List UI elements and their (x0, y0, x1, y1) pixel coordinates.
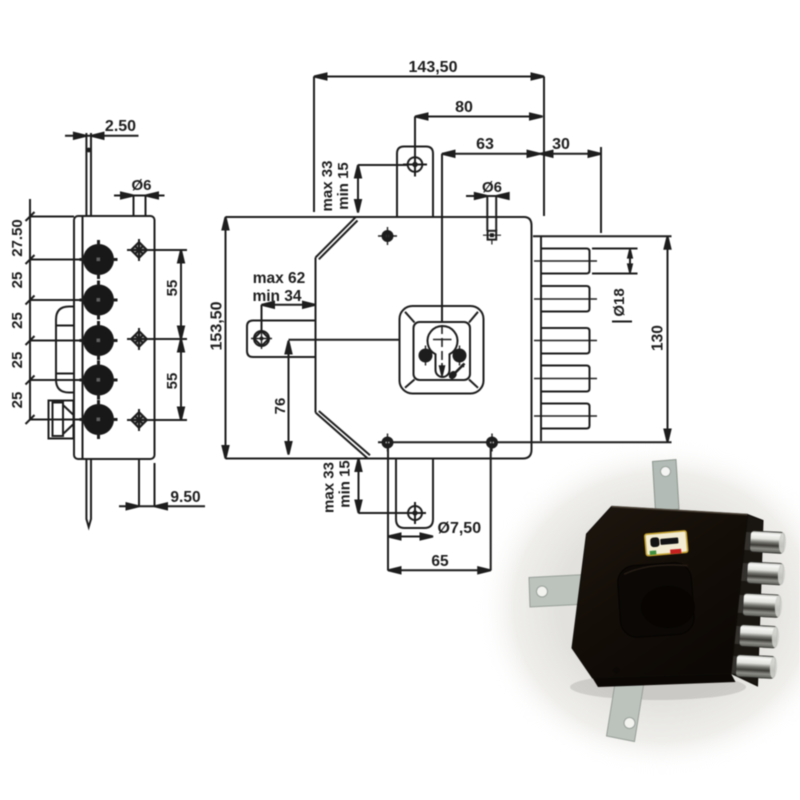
dimension 130 (667, 236, 669, 442)
cylinder escutcheon inner (414, 322, 471, 380)
photo lock side face (731, 515, 763, 687)
photo bottom mounting strap (607, 674, 645, 742)
front top screw hole (378, 227, 397, 245)
front view top-left chamfer (316, 217, 357, 258)
photo left strap hole (537, 586, 548, 597)
svg-text:30: 30 (552, 136, 570, 153)
photo bolt pin 3 (733, 593, 782, 618)
front view top mounting tab (397, 147, 433, 218)
svg-text:9.50: 9.50 (170, 489, 200, 506)
photo central recess (617, 562, 696, 639)
bottom tab hole (404, 502, 426, 524)
photo bottom strap hole (624, 718, 635, 729)
bolt 1 centerline (534, 260, 597, 262)
front view bottom-left chamfer (316, 413, 369, 459)
photo left mounting strap (529, 575, 587, 608)
svg-text:27.50: 27.50 (9, 219, 26, 257)
svg-text:63: 63 (476, 136, 494, 153)
left dimension tick marks (26, 212, 35, 424)
dimension 76 (288, 341, 290, 455)
svg-text:55: 55 (164, 280, 181, 297)
svg-text:25: 25 (9, 312, 26, 329)
svg-text:Ø6: Ø6 (131, 177, 151, 194)
photo top mounting strap (653, 460, 680, 512)
bolt 4 (541, 366, 590, 392)
front left strap (247, 321, 316, 358)
side view faceplate rod bottom (86, 459, 91, 527)
front view left edge (315, 258, 317, 413)
small key glyph (449, 364, 465, 380)
side view lower square tab (49, 401, 74, 439)
cylinder screw left (420, 346, 432, 366)
photo body top edge highlight (612, 507, 748, 515)
photo recess dark hollow (641, 586, 695, 628)
cylinder centerline (441, 154, 443, 321)
svg-text:max 33: max 33 (319, 161, 336, 212)
photo bolt pin 1 (740, 530, 786, 553)
dimension 63 and 30 (442, 153, 601, 155)
front bottom screw hole left (383, 434, 393, 452)
svg-text:80: 80 (455, 99, 473, 116)
dimension 55 upper (149, 249, 187, 251)
left dimension chain line (29, 199, 31, 420)
side view knob 3 (80, 321, 118, 360)
side view knob 1 (80, 240, 118, 279)
escutcheon corner bevels (405, 312, 415, 323)
front view body outline (226, 217, 532, 459)
dimension diameter 6 front (466, 195, 509, 197)
left dimension extension lines (30, 216, 74, 218)
side view knob 2 (80, 281, 118, 320)
side view fixing hole diamond 1 (127, 239, 151, 261)
dimension 80 (415, 116, 543, 118)
side view knob 5 (80, 400, 118, 439)
svg-text:55: 55 (164, 373, 181, 390)
front diameter-6 hole square (483, 231, 501, 245)
svg-text:25: 25 (9, 272, 26, 289)
bottom screw holes centerline (378, 441, 672, 443)
photo lock bottom side band (593, 674, 736, 688)
cylinder screw right (454, 346, 466, 366)
side view body (74, 216, 155, 459)
svg-text:153,50: 153,50 (209, 301, 226, 350)
dimension max33 min15 top (357, 165, 359, 213)
euro cylinder profile (428, 326, 458, 377)
bolt 2 (541, 286, 590, 312)
svg-text:min 15: min 15 (337, 460, 354, 508)
dimension 2.50 (65, 135, 139, 137)
photo body screw dot 2 (687, 665, 693, 671)
svg-text:Ø6: Ø6 (482, 179, 502, 196)
svg-text:76: 76 (272, 398, 289, 415)
svg-text:65: 65 (431, 553, 449, 570)
photo top strap hole (661, 467, 671, 477)
photo bolt pin 4 (730, 624, 779, 648)
left strap hole (251, 328, 272, 349)
cylinder escutcheon outer (400, 306, 484, 394)
faceplate top extension (533, 235, 672, 237)
photo background (477, 439, 800, 775)
svg-text:max 62: max 62 (253, 270, 306, 287)
photo bolt pin 5 (727, 654, 777, 679)
front bottom tab (396, 459, 433, 529)
dimension diameter 6 side view (114, 195, 165, 197)
dimension diameter 7,50 (388, 536, 433, 538)
dimension max33 min15 bottom (358, 459, 360, 514)
side view fixing hole diamond 3 (127, 409, 151, 431)
svg-text:25: 25 (9, 352, 26, 369)
photo body screw dot 1 (613, 667, 619, 673)
svg-text:2.50: 2.50 (105, 118, 136, 135)
dimension 65 (387, 448, 389, 571)
photo lock body front face (572, 507, 748, 679)
front bottom screw hole right (487, 434, 497, 452)
photo shadow under lock (570, 674, 746, 700)
bolt 4 centerline (534, 378, 597, 380)
side view knob 4 (80, 361, 118, 400)
svg-text:max 33: max 33 (321, 462, 338, 513)
svg-text:Ø18: Ø18 (611, 288, 628, 316)
bolt 1 (541, 249, 590, 274)
svg-text:143,50: 143,50 (409, 59, 458, 76)
dimension 143,50 (314, 76, 544, 78)
svg-text:min 34: min 34 (252, 288, 301, 305)
side view faceplate rod top (85, 133, 87, 216)
top tab hole (403, 153, 427, 177)
bolt 5 (541, 404, 590, 429)
photo brand label (645, 531, 688, 557)
dimension diameter 18 (592, 248, 638, 250)
bolt 3 centerline (534, 340, 597, 342)
dimension max62 min34 (262, 304, 316, 306)
bolt 3 (541, 328, 590, 354)
side view left latch tab (56, 307, 74, 393)
svg-text:min 15: min 15 (335, 162, 352, 210)
svg-text:25: 25 (9, 392, 26, 409)
faceplate edge line (540, 236, 542, 441)
side view faceplate line (82, 216, 84, 459)
side view fixing hole diamond 2 (127, 328, 151, 350)
svg-text:130: 130 (650, 325, 667, 351)
dimension 153,50 (225, 217, 227, 459)
svg-text:Ø7,50: Ø7,50 (438, 520, 482, 537)
bolt 2 centerline (534, 298, 597, 300)
photo bolt pin 2 (737, 561, 785, 585)
dimension 9.50 (138, 459, 140, 507)
bolt 5 centerline (534, 415, 597, 417)
